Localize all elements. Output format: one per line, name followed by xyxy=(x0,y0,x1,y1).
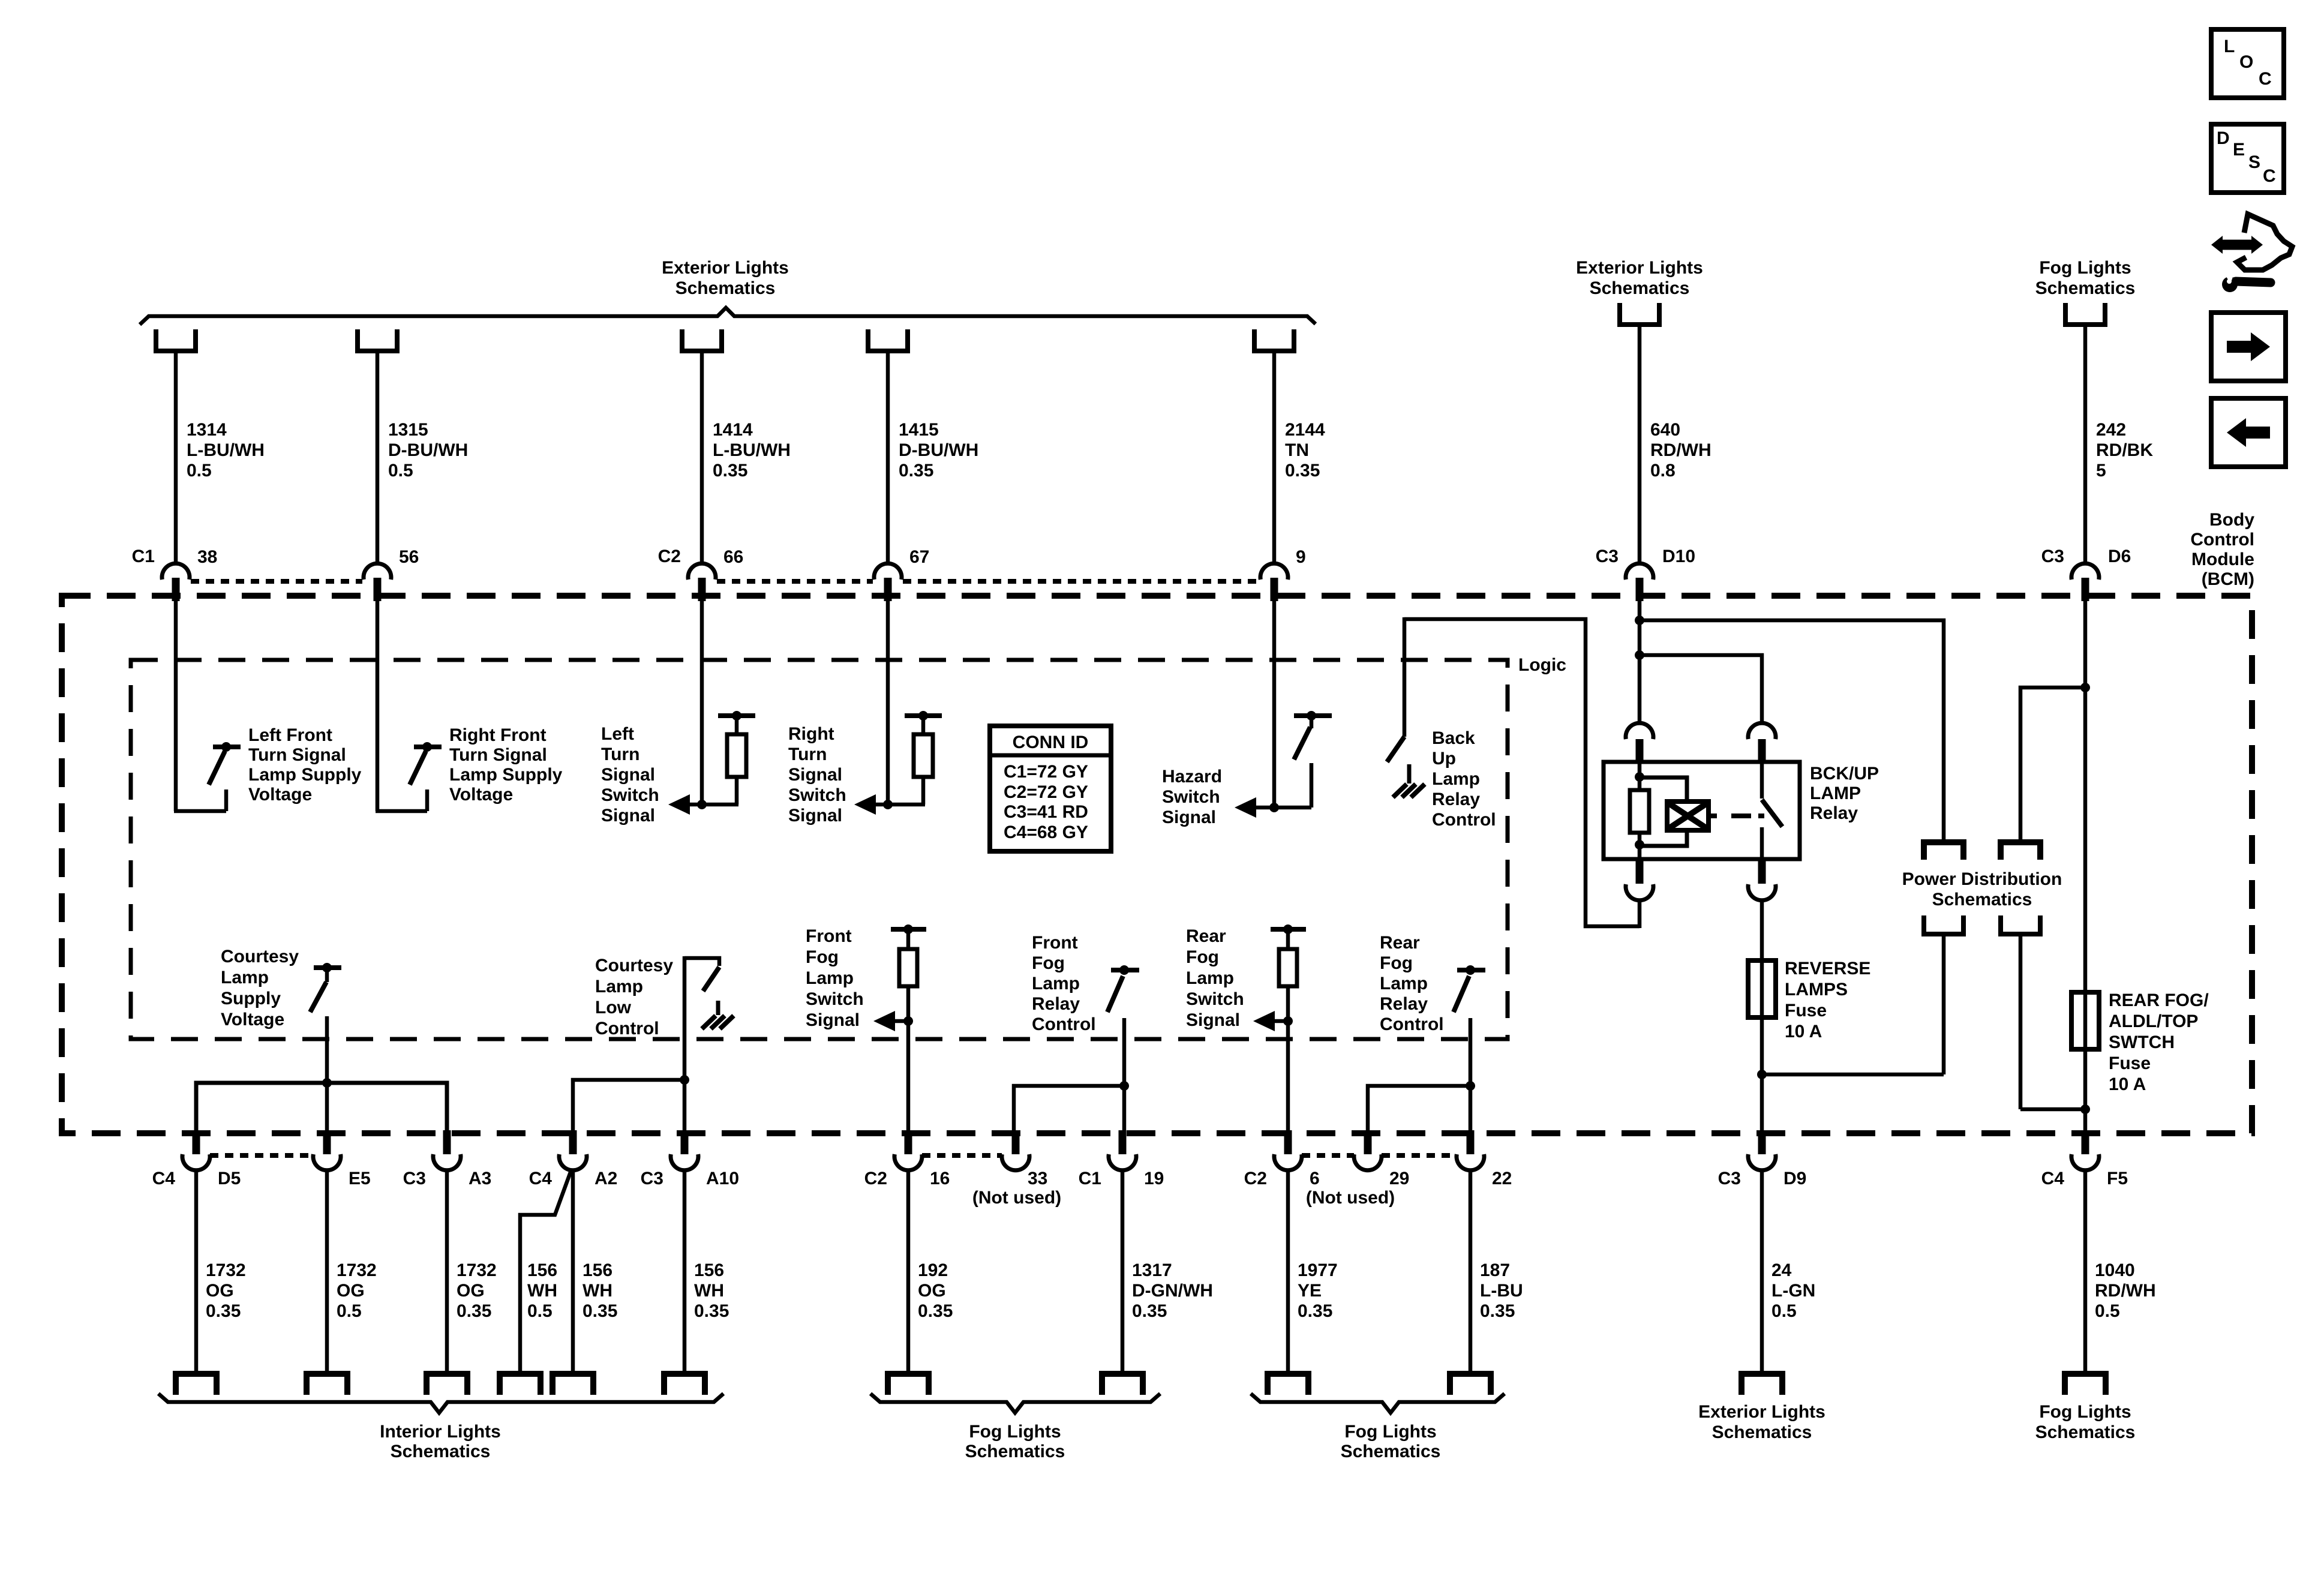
svg-text:10 A: 10 A xyxy=(2109,1074,2146,1094)
svg-text:Fog: Fog xyxy=(806,947,839,967)
svg-text:OG: OG xyxy=(918,1281,946,1301)
ground stub xyxy=(1407,764,1412,784)
svg-text:16: 16 xyxy=(930,1169,950,1188)
switch blade xyxy=(1454,976,1469,1012)
svg-text:0.5: 0.5 xyxy=(2095,1301,2120,1321)
svg-text:1415: 1415 xyxy=(899,420,939,440)
wire switch to pin xyxy=(1122,1018,1127,1133)
svg-text:Fuse: Fuse xyxy=(2109,1053,2151,1073)
svg-text:242: 242 xyxy=(2096,420,2126,440)
svg-text:Left Front: Left Front xyxy=(248,725,332,745)
svg-text:C3: C3 xyxy=(641,1169,663,1188)
wire fuse output to power distribution left xyxy=(1762,1073,1944,1077)
relay connector arc (switch pin bottom) xyxy=(1748,884,1776,900)
wire (resistor bottom lead) xyxy=(735,778,739,804)
svg-text:(BCM): (BCM) xyxy=(2202,569,2254,589)
svg-text:Courtesy: Courtesy xyxy=(221,947,299,966)
svg-text:Interior Lights: Interior Lights xyxy=(380,1422,501,1442)
svg-text:REVERSE: REVERSE xyxy=(1785,959,1870,978)
svg-text:D-GN/WH: D-GN/WH xyxy=(1132,1281,1213,1301)
off-page connector bracket (bottom, x=1514) xyxy=(888,1374,929,1395)
ground stub xyxy=(716,1001,720,1015)
svg-text:0.5: 0.5 xyxy=(527,1301,553,1321)
junction dot xyxy=(1307,711,1316,721)
off-page connector bracket (top, x=1170) xyxy=(682,329,722,351)
svg-text:1732: 1732 xyxy=(457,1260,497,1280)
connector arc pin F5 xyxy=(2071,1154,2099,1170)
svg-text:WH: WH xyxy=(582,1281,612,1301)
svg-text:LAMP: LAMP xyxy=(1810,784,1861,803)
connector C1 dotted link pins 38-56 xyxy=(191,579,362,584)
svg-text:Rear: Rear xyxy=(1380,933,1420,953)
off-page bracket (power distribution left, in) xyxy=(1924,842,1963,860)
svg-text:RD/WH: RD/WH xyxy=(1650,440,1712,460)
svg-text:BCK/UP: BCK/UP xyxy=(1810,764,1879,784)
pin stub D6 xyxy=(2082,578,2089,601)
svg-text:Fog Lights: Fog Lights xyxy=(2039,258,2131,278)
wire pin A10 to off-page xyxy=(683,1170,687,1373)
off-page bracket (power distribution right, in) xyxy=(2001,842,2040,860)
svg-text:Rear: Rear xyxy=(1186,926,1226,946)
svg-text:0.35: 0.35 xyxy=(918,1301,953,1321)
switch bar terminal xyxy=(414,745,442,749)
wire (horizontal to switch) xyxy=(174,809,226,813)
junction dot xyxy=(2080,683,2090,692)
svg-text:C1=72 GY: C1=72 GY xyxy=(1004,762,1088,782)
svg-text:C3=41 RD: C3=41 RD xyxy=(1004,802,1088,822)
Body Control Module dashed box xyxy=(62,596,2252,1133)
svg-text:Body: Body xyxy=(2209,510,2254,530)
junction dot xyxy=(883,800,893,809)
connector arc pin 38 xyxy=(162,563,190,580)
wire 1415 D-BU/WH xyxy=(886,353,890,565)
relay coil (box with X) jog top xyxy=(1640,778,1687,803)
junction dot xyxy=(221,742,231,752)
wire pin 6 to off-page xyxy=(1286,1170,1290,1373)
svg-text:SWTCH: SWTCH xyxy=(2109,1032,2175,1052)
wire: D10 node to relay switch pin xyxy=(1640,655,1762,724)
svg-text:C3: C3 xyxy=(2041,547,2064,566)
svg-text:OG: OG xyxy=(457,1281,485,1301)
chassis ground hatches xyxy=(1393,784,1407,797)
svg-text:Turn: Turn xyxy=(788,745,827,764)
svg-text:10 A: 10 A xyxy=(1785,1022,1822,1041)
off-page connector bracket (bottom, x=327) xyxy=(176,1374,217,1395)
wire (arrow horizontal) xyxy=(689,803,738,807)
off-page connector bracket (top, x=2733) xyxy=(1620,303,1659,325)
pin stub 19 (BCM bottom) xyxy=(1119,1130,1127,1154)
pin stub D9 (BCM bottom) xyxy=(1758,1130,1766,1154)
svg-text:C: C xyxy=(2259,69,2272,89)
resistor xyxy=(1279,949,1297,986)
chassis ground hatches xyxy=(702,1016,716,1029)
svg-text:Signal: Signal xyxy=(1186,1010,1240,1030)
off-page connector bracket (bottom, x=2937) xyxy=(1742,1374,1782,1395)
svg-text:C4: C4 xyxy=(2041,1169,2065,1188)
wire arrow horizontal xyxy=(1274,1019,1288,1023)
connector arc pin E5 xyxy=(313,1154,341,1170)
brace Interior Lights Schematics xyxy=(158,1394,723,1413)
junction dot xyxy=(1283,1016,1293,1026)
off-page connector bracket (top, x=629) xyxy=(358,329,397,351)
connector arc pin 22 xyxy=(1457,1154,1484,1170)
connector arc pin 33 xyxy=(1002,1154,1029,1170)
svg-text:Switch: Switch xyxy=(788,785,846,805)
svg-text:1414: 1414 xyxy=(713,420,753,440)
off-page bracket (power distribution right, out) xyxy=(2001,915,2040,934)
wire (switch lower stub) xyxy=(1310,763,1314,807)
wire 156 WH 0.5 (from pin A2 splice, diagonal) xyxy=(520,1170,571,1373)
pin stub 38 xyxy=(172,578,180,601)
svg-text:D6: D6 xyxy=(2108,547,2131,566)
svg-text:2144: 2144 xyxy=(1285,420,1325,440)
pin stub 6 (BCM bottom) xyxy=(1284,1130,1292,1154)
junction dot xyxy=(1466,1081,1475,1091)
connector arc pin A10 xyxy=(671,1154,698,1170)
bar terminal xyxy=(891,927,926,932)
svg-text:Turn: Turn xyxy=(601,745,639,764)
svg-text:Switch: Switch xyxy=(1162,787,1220,807)
junction dot xyxy=(732,711,741,721)
pin stub F5 (BCM bottom) xyxy=(2082,1130,2089,1154)
svg-text:Schematics: Schematics xyxy=(675,278,776,298)
wire pin A10 riser xyxy=(683,956,687,1133)
svg-text:Fuse: Fuse xyxy=(1785,1001,1827,1020)
svg-text:Signal: Signal xyxy=(806,1010,860,1030)
svg-text:Lamp: Lamp xyxy=(221,968,269,987)
svg-text:Low: Low xyxy=(595,998,632,1017)
svg-text:Schematics: Schematics xyxy=(2035,1422,2136,1442)
svg-text:C3: C3 xyxy=(1718,1169,1741,1188)
wire stub below dot xyxy=(325,968,329,982)
off-page connector bracket (bottom, x=545) xyxy=(307,1374,347,1395)
svg-text:ALDL/TOP: ALDL/TOP xyxy=(2109,1011,2198,1031)
svg-text:156: 156 xyxy=(527,1260,557,1280)
junction dot xyxy=(697,800,707,809)
svg-text:67: 67 xyxy=(909,547,929,567)
connector arc pin 6 xyxy=(1274,1154,1302,1170)
relay pin stub (coil bottom) xyxy=(1636,858,1644,884)
svg-text:Voltage: Voltage xyxy=(248,785,312,804)
pin stub 16 (BCM bottom) xyxy=(905,1130,912,1154)
pin stub 67 xyxy=(884,578,892,601)
pin stub A2 (BCM bottom) xyxy=(569,1130,577,1154)
svg-text:Exterior Lights: Exterior Lights xyxy=(1698,1402,1825,1422)
svg-text:(Not used): (Not used) xyxy=(972,1188,1061,1208)
svg-text:Schematics: Schematics xyxy=(1932,890,2032,909)
connector arc pin D9 xyxy=(1748,1154,1776,1170)
svg-text:Schematics: Schematics xyxy=(965,1442,1065,1461)
svg-text:C3: C3 xyxy=(403,1169,426,1188)
svg-text:0.35: 0.35 xyxy=(899,461,933,481)
wire (resistor top lead) xyxy=(735,719,739,736)
svg-text:WH: WH xyxy=(694,1281,724,1301)
svg-text:Schematics: Schematics xyxy=(391,1442,491,1461)
svg-text:19: 19 xyxy=(1144,1169,1164,1188)
svg-text:C4: C4 xyxy=(529,1169,553,1188)
svg-text:Exterior Lights: Exterior Lights xyxy=(1576,258,1703,278)
junction dot (A10/A2 tie) xyxy=(680,1075,689,1085)
svg-text:D9: D9 xyxy=(1783,1169,1806,1188)
svg-text:0.35: 0.35 xyxy=(694,1301,729,1321)
svg-text:Supply: Supply xyxy=(221,989,281,1008)
pin stub E5 (BCM bottom) xyxy=(323,1130,331,1154)
off-page connector bracket (bottom, x=3476) xyxy=(2065,1374,2106,1395)
wire switch to supply bus xyxy=(325,1016,329,1083)
svg-text:A2: A2 xyxy=(594,1169,617,1188)
connector C2 dotted link 29-22 xyxy=(1382,1153,1457,1158)
svg-text:D: D xyxy=(2217,128,2230,148)
wire pin D5 to off-page xyxy=(194,1170,199,1373)
relay BCK/UP LAMP Relay box xyxy=(1604,762,1800,859)
relay connector arc (coil pin bottom) xyxy=(1626,884,1653,900)
signal arrow (to logic) xyxy=(854,794,876,815)
switch bar terminal xyxy=(314,965,341,970)
svg-text:Lamp: Lamp xyxy=(1186,968,1234,988)
pin stub 56 xyxy=(374,578,382,601)
connector arc pin 16 xyxy=(894,1154,922,1170)
wire: backup switch to relay coil return (up/right/down) xyxy=(1404,619,1640,926)
svg-text:L-BU/WH: L-BU/WH xyxy=(713,440,791,460)
off-page connector bracket (bottom, x=2451) xyxy=(1450,1374,1491,1395)
svg-text:L-BU/WH: L-BU/WH xyxy=(187,440,265,460)
svg-text:Power Distribution: Power Distribution xyxy=(1902,869,2062,889)
svg-text:Signal: Signal xyxy=(601,806,655,825)
fuse REVERSE LAMPS 10A xyxy=(1748,960,1776,1017)
svg-text:Hazard: Hazard xyxy=(1162,767,1222,786)
wire pin 19 to off-page xyxy=(1121,1170,1125,1373)
wire tie to not-used pin xyxy=(1368,1086,1470,1133)
off-page connector bracket (top, x=3476) xyxy=(2065,303,2105,325)
svg-text:Turn Signal: Turn Signal xyxy=(449,745,547,765)
junction dot xyxy=(422,742,432,752)
relay coil resistor branch xyxy=(1638,762,1642,792)
svg-text:Control: Control xyxy=(2190,530,2254,550)
svg-text:F5: F5 xyxy=(2107,1169,2128,1188)
svg-text:Fog: Fog xyxy=(1032,953,1065,973)
svg-text:0.5: 0.5 xyxy=(1771,1301,1797,1321)
svg-text:Switch: Switch xyxy=(601,785,659,805)
svg-text:0.5: 0.5 xyxy=(388,461,413,481)
svg-text:0.35: 0.35 xyxy=(713,461,747,481)
svg-text:Control: Control xyxy=(1032,1014,1096,1034)
relay connector arc (coil pin top) xyxy=(1626,723,1653,739)
pin stub D10 xyxy=(1636,578,1644,601)
relay switch output xyxy=(1760,827,1764,859)
off-page connector bracket (top, x=293) xyxy=(156,329,196,351)
resistor (pull-up) xyxy=(727,734,746,777)
svg-text:Module: Module xyxy=(2191,550,2254,569)
svg-text:Fog Lights: Fog Lights xyxy=(969,1422,1061,1442)
wire (pin drop to switch, x=629) xyxy=(376,601,380,811)
signal arrow xyxy=(1235,797,1256,818)
svg-text:D5: D5 xyxy=(218,1169,241,1188)
svg-text:L-BU: L-BU xyxy=(1480,1281,1523,1301)
svg-text:0.35: 0.35 xyxy=(1285,461,1320,481)
svg-text:Right: Right xyxy=(788,724,834,744)
brace Fog Lights Schematics (front) xyxy=(870,1394,1160,1413)
svg-text:0.35: 0.35 xyxy=(206,1301,241,1321)
icon DESC box xyxy=(2211,124,2284,193)
connector arc pin 56 xyxy=(364,563,391,580)
svg-text:C3: C3 xyxy=(1596,547,1619,566)
relay switch blade xyxy=(1762,800,1782,827)
svg-text:Fog: Fog xyxy=(1380,953,1413,973)
svg-text:(Not used): (Not used) xyxy=(1306,1188,1395,1208)
connector arc pin D10 xyxy=(1626,563,1653,580)
svg-text:Voltage: Voltage xyxy=(449,785,513,804)
svg-text:0.35: 0.35 xyxy=(1132,1301,1167,1321)
connector C2 dotted link pins 67-9 xyxy=(903,579,1259,584)
svg-text:1317: 1317 xyxy=(1132,1260,1172,1280)
pin stub 9 xyxy=(1271,578,1278,601)
svg-text:Lamp: Lamp xyxy=(1032,974,1080,993)
wire horizontal top xyxy=(684,958,719,966)
connector arc pin 66 xyxy=(688,563,716,580)
svg-text:Relay: Relay xyxy=(1380,994,1428,1014)
wire arrow horizontal xyxy=(894,1019,908,1023)
resistor (pull-up) xyxy=(914,734,933,777)
svg-text:Schematics: Schematics xyxy=(1590,278,1690,298)
svg-text:D10: D10 xyxy=(1662,547,1695,566)
svg-text:C2=72 GY: C2=72 GY xyxy=(1004,782,1088,802)
svg-text:Up: Up xyxy=(1432,749,1456,769)
off-page connector bracket (top, x=1480) xyxy=(868,329,908,351)
svg-text:OG: OG xyxy=(337,1281,365,1301)
wire 1315 D-BU/WH xyxy=(376,353,380,565)
svg-text:RD/BK: RD/BK xyxy=(2096,440,2153,460)
connector arc pin 9 xyxy=(1260,563,1288,580)
off-page bracket (power distribution left, out) xyxy=(1924,915,1963,934)
off-page connector bracket (top, x=2124) xyxy=(1254,329,1294,351)
bar terminal xyxy=(718,713,755,718)
wire stub to resistor xyxy=(1286,929,1290,950)
svg-text:187: 187 xyxy=(1480,1260,1510,1280)
wire (resistor top lead) xyxy=(921,719,926,736)
signal arrow (to logic) xyxy=(668,794,690,815)
svg-text:0.35: 0.35 xyxy=(457,1301,491,1321)
svg-text:C4: C4 xyxy=(152,1169,176,1188)
svg-text:C1: C1 xyxy=(1079,1169,1101,1188)
svg-text:E5: E5 xyxy=(349,1169,371,1188)
svg-text:Exterior Lights: Exterior Lights xyxy=(662,258,789,278)
svg-text:Signal: Signal xyxy=(788,806,842,825)
icon LOC box xyxy=(2211,29,2284,98)
pin stub 66 xyxy=(698,578,706,601)
wire pin 22 to off-page xyxy=(1469,1170,1473,1373)
wire (pin drop to switch, x=293) xyxy=(174,601,178,811)
wire 2144 TN xyxy=(1272,353,1277,565)
wire (arrow horizontal) xyxy=(875,803,925,807)
wire: BCM pin D10 drop to relay xyxy=(1638,601,1642,724)
svg-text:Relay: Relay xyxy=(1810,803,1858,823)
wire resistor to pin xyxy=(906,985,911,1133)
off-page connector bracket (bottom, x=1871) xyxy=(1102,1374,1143,1395)
junction dot xyxy=(322,1078,332,1088)
wire (stub below dot) xyxy=(1310,716,1314,728)
connector C4 dotted link D5-E5 xyxy=(210,1153,313,1158)
pin stub 29 (BCM bottom) xyxy=(1364,1130,1372,1154)
svg-text:0.5: 0.5 xyxy=(187,461,212,481)
wire (arrow horizontal) xyxy=(1255,806,1311,810)
pin stub A3 (BCM bottom) xyxy=(443,1130,451,1154)
relay switch contact xyxy=(1760,763,1764,798)
off-page connector bracket (bottom, x=867) xyxy=(500,1374,541,1395)
svg-text:640: 640 xyxy=(1650,420,1680,440)
svg-text:1732: 1732 xyxy=(337,1260,377,1280)
junction dot xyxy=(903,924,913,934)
switch bar terminal xyxy=(1457,968,1485,972)
svg-text:192: 192 xyxy=(918,1260,948,1280)
svg-text:1314: 1314 xyxy=(187,420,227,440)
svg-text:1040: 1040 xyxy=(2095,1260,2135,1280)
svg-text:0.35: 0.35 xyxy=(582,1301,617,1321)
svg-text:Relay: Relay xyxy=(1032,994,1080,1014)
wire switch to pin xyxy=(1469,1018,1473,1133)
switch blade xyxy=(410,751,426,785)
svg-text:6: 6 xyxy=(1310,1169,1320,1188)
svg-text:Relay: Relay xyxy=(1432,789,1480,809)
wire (relay coil return drop) xyxy=(1403,617,1407,737)
connector arc pin A3 xyxy=(433,1154,461,1170)
wire xyxy=(2019,936,2023,1109)
svg-text:Lamp Supply: Lamp Supply xyxy=(248,765,362,785)
icon back arrow box xyxy=(2211,398,2286,467)
resistor xyxy=(899,949,917,986)
wire relay output down to pin D9 xyxy=(1760,900,1764,1133)
switch blade xyxy=(1387,737,1404,762)
svg-text:Lamp Supply: Lamp Supply xyxy=(449,765,563,785)
svg-text:Control: Control xyxy=(1380,1014,1444,1034)
wire pin D9 to off-page xyxy=(1760,1170,1764,1373)
junction dot xyxy=(1269,803,1279,812)
svg-text:Front: Front xyxy=(1032,933,1078,953)
svg-text:156: 156 xyxy=(582,1260,612,1280)
svg-text:Switch: Switch xyxy=(806,989,864,1009)
relay pin stub xyxy=(1758,739,1766,763)
svg-text:REAR FOG/: REAR FOG/ xyxy=(2109,990,2209,1010)
relay pin stub xyxy=(1636,739,1644,763)
wire xyxy=(1942,936,1946,1074)
Logic dashed box xyxy=(131,660,1508,1039)
svg-text:Courtesy: Courtesy xyxy=(595,956,673,975)
svg-text:YE: YE xyxy=(1298,1281,1322,1301)
junction dot xyxy=(2080,1104,2090,1114)
junction dot xyxy=(1119,965,1129,975)
pin stub 22 (BCM bottom) xyxy=(1467,1130,1475,1154)
svg-text:22: 22 xyxy=(1492,1169,1512,1188)
svg-text:Control: Control xyxy=(1432,810,1496,830)
svg-text:Lamp: Lamp xyxy=(1380,974,1428,993)
svg-text:TN: TN xyxy=(1285,440,1309,460)
svg-text:Back: Back xyxy=(1432,728,1475,748)
svg-text:D-BU/WH: D-BU/WH xyxy=(899,440,978,460)
svg-text:Signal: Signal xyxy=(788,765,842,785)
wire 1414 L-BU/WH xyxy=(700,353,704,565)
wire resistor to pin xyxy=(1286,985,1290,1133)
brace top (Exterior Lights Schematics span) xyxy=(140,308,1316,325)
svg-text:Logic: Logic xyxy=(1518,655,1566,675)
switch blade xyxy=(703,967,719,991)
wire tie to not-used pin xyxy=(1014,1086,1124,1133)
junction dot xyxy=(322,963,332,972)
switch bar terminal xyxy=(1111,968,1139,972)
pin stub D5 (BCM bottom) xyxy=(193,1130,200,1154)
off-page connector bracket (bottom, x=955) xyxy=(553,1374,593,1395)
svg-text:E: E xyxy=(2233,140,2245,160)
svg-text:Control: Control xyxy=(595,1019,659,1038)
svg-text:Schematics: Schematics xyxy=(1341,1442,1441,1461)
